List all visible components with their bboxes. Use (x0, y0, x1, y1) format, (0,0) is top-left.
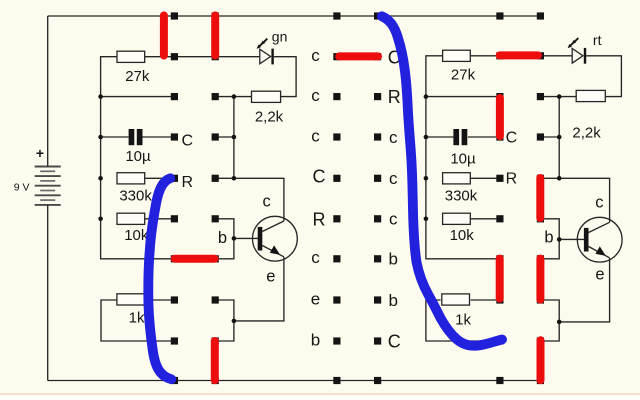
label 10k (left) (124, 227, 149, 244)
wire junction column upper segment (left) (233, 97, 235, 179)
label e of Q2 (595, 266, 604, 284)
red jumper right rows2-3 (496, 98, 504, 136)
label 27k (left) (125, 68, 150, 85)
junctions left rail (98, 94, 103, 221)
wire 10k to pad A (left) (145, 218, 175, 220)
node label b (mid-right row7) (388, 291, 397, 310)
blue wire right (top rail to 1k) (382, 16, 502, 345)
svg-text:R: R (182, 174, 194, 191)
wire 2.2k to pad F (right) (540, 96, 576, 98)
svg-text:b: b (218, 229, 227, 247)
svg-text:b: b (388, 291, 397, 310)
node label c (mid-right row5) (389, 210, 398, 229)
battery plus sign (36, 145, 44, 161)
label 330k (left) (119, 188, 152, 205)
node label R (mid-right row2) (388, 87, 401, 107)
socket pads strip D (middle-right) (374, 12, 381, 384)
node label c (mid-left row3) (311, 126, 320, 145)
wire junction column upper segment (right) (558, 97, 560, 179)
svg-text:R: R (506, 171, 518, 188)
label 10u (left) (125, 148, 151, 165)
capacitor 10u (right) (453, 129, 467, 145)
node label e (mid-left row7) (311, 289, 320, 308)
svg-text:c: c (595, 194, 603, 212)
svg-text:330k: 330k (445, 187, 478, 204)
resistor 27k (right) (443, 50, 471, 61)
red jumper middle row1 (339, 52, 378, 60)
junctions left column (232, 94, 237, 323)
wire row2 rail to pad (right) (426, 96, 500, 98)
svg-text:e: e (595, 266, 604, 284)
red jumper right rows4-5 (536, 178, 544, 218)
wire emitter path (right) (540, 258, 609, 341)
wire capacitor row (left) (101, 136, 175, 138)
wire row2 rail to pad (left) (101, 96, 175, 98)
page edge strip bottom (0, 393, 640, 400)
wire pad B row3 to junction column (left) (215, 136, 234, 138)
red jumper left bottom (211, 341, 219, 380)
resistor 330k (right) (443, 173, 471, 184)
svg-text:c: c (311, 46, 320, 65)
resistor 2.2k (left) (252, 91, 281, 102)
wire 27k to red jumper (right) (471, 55, 500, 57)
node label c (mid-left row1) (311, 46, 320, 65)
wire collector row pad B to Q1 (left) (215, 178, 284, 221)
resistor 10k (left) (117, 213, 145, 224)
wire 2.2k to pad B (left) (215, 96, 251, 98)
svg-text:c: c (389, 128, 398, 147)
svg-text:e: e (266, 268, 275, 286)
wire 27k to LED anode (left) (145, 56, 260, 58)
label 2,2k (right) (572, 125, 601, 142)
svg-text:c: c (389, 169, 398, 188)
battery 9V (35, 167, 61, 205)
svg-text:10µ: 10µ (450, 151, 476, 168)
wire right block left rail (426, 56, 500, 259)
node label C (right block) (506, 130, 518, 147)
node label C (mid-left row4) (313, 167, 326, 187)
label 27k (right) (451, 67, 476, 84)
wire left block left rail (101, 57, 175, 259)
label e of Q1 (266, 268, 275, 286)
label c of Q2 (595, 194, 603, 212)
svg-text:e: e (311, 289, 320, 308)
label 10k (right) (450, 227, 475, 244)
label 2,2k (left) (255, 108, 284, 125)
resistor 27k (left) (117, 51, 145, 62)
node label b (mid-right row6) (388, 250, 397, 269)
socket pads strip F (right) (537, 12, 544, 384)
svg-text:b: b (544, 228, 553, 246)
node label c (mid-left row6) (311, 248, 320, 267)
svg-text:2,2k: 2,2k (255, 108, 284, 125)
svg-text:C: C (388, 331, 401, 351)
label 1k (right) (455, 312, 471, 329)
node label R (mid-left row5) (313, 210, 326, 230)
blue wire left (R to bottom rail) (148, 178, 171, 379)
red jumper left row6 (175, 255, 215, 263)
svg-text:10µ: 10µ (125, 148, 151, 165)
svg-text:9 V: 9 V (14, 182, 30, 194)
wire 1k to pad E (right) (471, 299, 500, 301)
node label C (mid-right row8) (388, 331, 401, 351)
svg-text:+: + (36, 145, 44, 161)
label gn (272, 28, 288, 44)
wire jumper to LED anode (right) (540, 55, 572, 57)
red jumper right row1 (500, 51, 538, 59)
wire base path pad B to Q1 base (left) (215, 219, 258, 259)
svg-text:R: R (388, 87, 401, 107)
svg-text:c: c (311, 86, 320, 105)
svg-text:c: c (389, 210, 398, 229)
transistor Q1 (left) (253, 216, 298, 261)
svg-text:330k: 330k (119, 188, 152, 205)
resistor 10k (right) (443, 213, 471, 224)
node label R (right block) (506, 171, 518, 188)
wire 330k to pad A (left) (145, 177, 175, 179)
svg-text:27k: 27k (125, 68, 150, 85)
transistor Q2 (right) (577, 217, 622, 262)
wire LED cathode to 2.2k (left) (274, 57, 296, 97)
wire emitter path (left) (215, 257, 284, 341)
svg-text:C: C (182, 133, 194, 150)
node label c (mid-right row3) (389, 128, 398, 147)
wire capacitor row (right) (426, 136, 500, 138)
svg-text:c: c (311, 248, 320, 267)
wire battery negative to bottom rail (47, 205, 49, 381)
node label c (mid-right row4) (389, 169, 398, 188)
red jumper right rows6-7 a (496, 259, 504, 299)
junctions right column (557, 94, 562, 324)
svg-text:c: c (311, 126, 320, 145)
wire 1k to pad A (left) (145, 299, 175, 301)
svg-text:C: C (313, 167, 326, 187)
svg-text:b: b (388, 250, 397, 269)
svg-text:1k: 1k (455, 312, 471, 329)
capacitor 10u (left) (129, 129, 143, 145)
red jumper right rows6-7 b (536, 259, 544, 300)
socket pads strip E (right) (496, 12, 503, 384)
node label C (left block) (182, 133, 194, 150)
wire bottom supply rail (48, 380, 541, 382)
red jumper top-left 1 (160, 16, 168, 56)
node label R (left block) (182, 174, 194, 191)
label rt (593, 32, 602, 48)
resistor 330k (left) (117, 173, 145, 184)
wire 1k loop to row8 pad (right) (426, 300, 500, 341)
node label C (mid-right row1) (388, 48, 401, 68)
label b of Q1 (218, 229, 227, 247)
LED rt (right) (572, 48, 586, 64)
LED gn (left) (260, 49, 274, 65)
LED rt light arrows (568, 38, 579, 48)
socket pads strip A (left) (171, 12, 178, 384)
red jumper top-left 2 (211, 16, 219, 56)
svg-text:c: c (262, 193, 270, 211)
svg-text:b: b (311, 330, 320, 349)
socket pads strip C (middle-left) (333, 12, 340, 384)
red jumper right bottom (537, 340, 545, 380)
label 10u (right) (450, 151, 476, 168)
wire pad F row3 to junction column (right) (540, 136, 559, 138)
resistor 2.2k (right) (576, 90, 605, 101)
label 1k (left) (129, 310, 145, 327)
wire top supply rail (48, 15, 544, 17)
node label c (mid-left row2) (311, 86, 320, 105)
wire battery positive to top rail (47, 16, 49, 167)
svg-text:C: C (506, 130, 518, 147)
LED gn light arrows (257, 39, 268, 49)
socket pads strip B (left) (212, 12, 219, 384)
wire 330k to pad E (right) (471, 177, 500, 179)
svg-text:gn: gn (272, 28, 288, 44)
wire LED cathode to 2.2k (right) (586, 56, 622, 97)
svg-text:10k: 10k (124, 227, 149, 244)
svg-text:27k: 27k (451, 67, 476, 84)
battery label 9 V (14, 182, 30, 194)
wire base path pad F to Q2 base (right) (540, 219, 584, 259)
junctions right rail (424, 94, 429, 221)
svg-text:10k: 10k (450, 227, 475, 244)
wire 10k to pad E (right) (471, 218, 500, 220)
wire 1k loop to row8 pad (left) (101, 300, 174, 341)
resistor 1k (right) (442, 294, 470, 305)
node label b (mid-left row8) (311, 330, 320, 349)
svg-text:1k: 1k (129, 310, 145, 327)
resistor 1k (left) (117, 294, 145, 305)
svg-text:2,2k: 2,2k (572, 125, 601, 142)
label c of Q1 (262, 193, 270, 211)
label 330k (right) (445, 187, 478, 204)
wire collector row pad F to Q2 (right) (540, 178, 609, 222)
svg-text:rt: rt (593, 32, 602, 48)
label b of Q2 (544, 228, 553, 246)
svg-text:R: R (313, 210, 326, 230)
